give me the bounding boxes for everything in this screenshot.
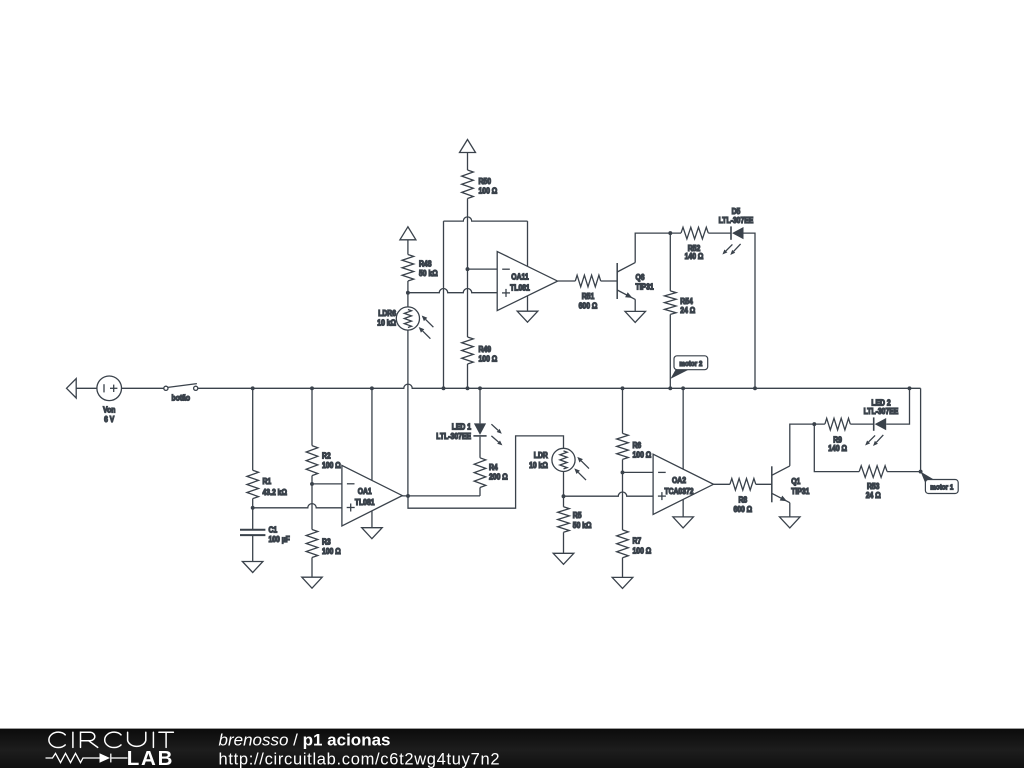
svg-text:600 Ω: 600 Ω bbox=[579, 302, 598, 311]
svg-text:43.2 kΩ: 43.2 kΩ bbox=[263, 488, 288, 497]
svg-text:LTL-307EE: LTL-307EE bbox=[719, 216, 754, 225]
svg-text:R6: R6 bbox=[633, 441, 642, 450]
wire: rail left leg down to bus bbox=[443, 221, 445, 388]
node: OA1 inverting junction bbox=[310, 482, 314, 486]
svg-text:TCA0372: TCA0372 bbox=[664, 487, 693, 496]
svg-text:R54: R54 bbox=[680, 297, 693, 306]
svg-text:LTL-307EE: LTL-307EE bbox=[864, 407, 899, 416]
svg-text:TIP31: TIP31 bbox=[636, 282, 655, 291]
resistor R8 600Ω bbox=[730, 479, 756, 491]
ground below R7 bbox=[612, 577, 633, 588]
wire: feedback loop from output down/right/up to LDR bbox=[408, 436, 564, 508]
svg-text:R1: R1 bbox=[263, 477, 272, 486]
wire: R48 to junction bbox=[407, 281, 409, 293]
wire: OA2 output to R8 bbox=[713, 483, 730, 485]
ground below OA11 bbox=[517, 311, 538, 322]
svg-text:http://circuitlab.com/c6t2wg4t: http://circuitlab.com/c6t2wg4tuy7n2 bbox=[219, 750, 500, 768]
wire: OA1 output row to R4 bbox=[402, 495, 480, 497]
svg-text:Q6: Q6 bbox=[636, 273, 645, 282]
svg-text:C1: C1 bbox=[269, 525, 278, 534]
resistor R49 100Ω bbox=[462, 337, 474, 364]
wire: OA11 V+ pin bbox=[527, 221, 529, 266]
wire: bus right leg down to motor1 node bbox=[920, 388, 922, 471]
svg-text:TIP31: TIP31 bbox=[791, 487, 810, 496]
svg-text:TL081: TL081 bbox=[355, 498, 375, 507]
wire: junction down to R5 bbox=[563, 496, 565, 507]
wire: R6 to minus junction bbox=[622, 459, 624, 472]
wire: OA2 V- pin to ground bbox=[682, 500, 684, 517]
node: OA2 inverting junction bbox=[621, 470, 625, 474]
node terminal flag (left, at source negative) bbox=[67, 379, 77, 398]
switch botão (SPST, open) bbox=[168, 384, 197, 388]
ground below OA2 bbox=[673, 517, 694, 528]
node: R9/R53 junction bbox=[812, 422, 816, 426]
ground below Q1 bbox=[780, 517, 801, 528]
svg-text:OA1: OA1 bbox=[358, 487, 372, 496]
wire: Q6 emitter to ground bbox=[634, 299, 636, 311]
resistor R53 24Ω bbox=[859, 466, 887, 478]
wire: R2 to minus junction bbox=[311, 476, 313, 484]
wire: bus down to R6 bbox=[622, 388, 624, 433]
wire: supply rail to OA11 V+ (hops over R50 line) bbox=[444, 217, 528, 221]
wire: OA1 V- pin to ground bbox=[371, 511, 373, 528]
svg-text:R5: R5 bbox=[573, 511, 582, 520]
svg-text:TL081: TL081 bbox=[510, 284, 530, 293]
resistor R3 100Ω bbox=[306, 530, 318, 558]
wire: bus down to LED1 bbox=[479, 388, 481, 423]
svg-text:LED 1: LED 1 bbox=[452, 423, 472, 432]
wire: LDR bottom to junction bbox=[563, 472, 565, 497]
wire: junction down to R49 bbox=[467, 269, 469, 337]
wire: flag to source bbox=[76, 387, 97, 389]
photoresistor LDR 10kΩ bbox=[552, 448, 575, 471]
wire: R51 to Q6 base bbox=[601, 280, 618, 282]
ground below R5 bbox=[553, 553, 574, 564]
wire: junction to OA1 + input (hops R2 line) bbox=[253, 504, 342, 508]
wire: Q1 emitter to ground bbox=[789, 503, 791, 517]
wire: R53 to motor1 node bbox=[887, 471, 921, 473]
wire: bus down to R2 bbox=[311, 388, 313, 445]
svg-text:motor 1: motor 1 bbox=[930, 483, 954, 492]
svg-text:LDR: LDR bbox=[534, 451, 548, 460]
svg-text:24 Ω: 24 Ω bbox=[680, 306, 695, 315]
resistor R50 100Ω bbox=[462, 170, 474, 199]
wire: LDR6 down across bus (hop) to OA1 output node bbox=[407, 330, 409, 496]
resistor R6 100Ω bbox=[617, 433, 629, 459]
wire: junction down to R54 bbox=[669, 233, 671, 291]
op-amp OA2 TCA0372 bbox=[653, 454, 713, 514]
svg-text:R50: R50 bbox=[479, 177, 492, 186]
wire: OA1 V+ pin from bus bbox=[371, 388, 373, 480]
wire: R49 to bus bbox=[467, 364, 469, 388]
wire: source to switch bbox=[122, 387, 164, 389]
ground below C1 bbox=[242, 562, 263, 573]
resistor R48 50kΩ bbox=[402, 255, 414, 282]
wire: R52 to D5 bbox=[708, 232, 730, 234]
LED LED2 LTL-307EE bbox=[869, 435, 876, 442]
svg-text:6 V: 6 V bbox=[104, 415, 115, 424]
wire: R9 to LED2 bbox=[850, 423, 873, 425]
resistor R51 600Ω bbox=[575, 275, 600, 287]
power flag above R48 bbox=[400, 227, 416, 240]
node: R52/R54 junction bbox=[668, 231, 672, 235]
svg-text:100 Ω: 100 Ω bbox=[322, 461, 341, 470]
svg-text:140 Ω: 140 Ω bbox=[828, 444, 847, 453]
voltage source Von 6 V bbox=[97, 376, 122, 401]
svg-text:600 Ω: 600 Ω bbox=[733, 505, 752, 514]
svg-text:brenosso / p1 acionas: brenosso / p1 acionas bbox=[219, 731, 391, 750]
wire: bus down to R1 bbox=[252, 388, 254, 470]
svg-text:Von: Von bbox=[103, 405, 115, 414]
wire: to OA11 inverting input bbox=[468, 268, 498, 270]
node: bus junctions bbox=[251, 386, 255, 390]
svg-text:OA2: OA2 bbox=[672, 476, 686, 485]
svg-text:R2: R2 bbox=[322, 451, 331, 460]
wire: OA11 output to R51 bbox=[558, 280, 575, 282]
ground below OA1 bbox=[362, 528, 383, 539]
svg-text:100 Ω: 100 Ω bbox=[633, 547, 652, 556]
node: R48/LDR6 junction bbox=[406, 291, 410, 295]
node: R1/C1/+input junction bbox=[251, 506, 255, 510]
svg-text:10 kΩ: 10 kΩ bbox=[529, 461, 548, 470]
LED D5 LTL-307EE bbox=[726, 244, 733, 251]
net flag motor 1 bbox=[921, 472, 935, 486]
node: OA1 output junction bbox=[406, 494, 410, 498]
transistor Q6 TIP31 bbox=[616, 263, 618, 299]
wire: to OA1 inverting input bbox=[312, 483, 342, 485]
power flag above R50 bbox=[460, 140, 476, 153]
wire: C1 to ground bbox=[252, 536, 254, 562]
wire: Q6 collector up to D5 row bbox=[635, 233, 681, 263]
resistor R1 43.2kΩ bbox=[247, 470, 259, 498]
svg-text:R49: R49 bbox=[479, 345, 492, 354]
wire: R5 to ground bbox=[563, 532, 565, 553]
resistor R4 200Ω bbox=[474, 458, 486, 488]
svg-text:50 kΩ: 50 kΩ bbox=[573, 521, 592, 530]
wire: R7 to ground bbox=[622, 558, 624, 578]
svg-text:OA11: OA11 bbox=[511, 273, 529, 282]
svg-text:LDR6: LDR6 bbox=[378, 309, 396, 318]
net flag motor 2 bbox=[670, 369, 688, 379]
wire: OA11 V- pin to ground bbox=[527, 296, 529, 312]
svg-text:100 Ω: 100 Ω bbox=[479, 187, 498, 196]
ground below Q6 bbox=[625, 311, 646, 322]
resistor R7 100Ω bbox=[617, 530, 629, 558]
svg-text:R51: R51 bbox=[582, 292, 595, 301]
svg-text:100 Ω: 100 Ω bbox=[633, 451, 652, 460]
svg-text:Q1: Q1 bbox=[791, 477, 800, 486]
resistor R54 24Ω bbox=[665, 291, 677, 315]
svg-text:10 kΩ: 10 kΩ bbox=[377, 319, 396, 328]
resistor R5 50kΩ bbox=[558, 507, 570, 533]
svg-text:24 Ω: 24 Ω bbox=[866, 491, 881, 500]
wire: OA2 V+ pin from bus bbox=[682, 388, 684, 469]
svg-text:botão: botão bbox=[172, 393, 191, 402]
transistor Q1 TIP31 bbox=[771, 466, 773, 502]
resistor R2 100Ω bbox=[306, 446, 318, 476]
svg-text:R7: R7 bbox=[633, 537, 642, 546]
logo CIRCUIT letters bbox=[49, 732, 65, 747]
wire: Q1 collector up to R9 row bbox=[790, 424, 825, 466]
svg-text:100 µF: 100 µF bbox=[269, 535, 290, 544]
op-amp OA1 TL081 bbox=[342, 465, 402, 526]
svg-text:R4: R4 bbox=[489, 463, 498, 472]
wire: R8 to Q1 base bbox=[756, 483, 772, 485]
photoresistor LDR6 10kΩ bbox=[407, 293, 409, 307]
wire: R3 to ground bbox=[311, 558, 313, 578]
wire: junction to OA11 + input (hops two verticals) bbox=[408, 289, 497, 293]
wire: junction down to R53 row bbox=[814, 424, 859, 472]
logo diode triangle bbox=[100, 753, 111, 763]
wire: junction to OA2 + input (hops R6 line) bbox=[564, 492, 654, 496]
wire: D5 to bus bbox=[744, 233, 756, 388]
LED LED1 LTL-307EE bbox=[474, 423, 486, 435]
wire: to OA2 inverting input bbox=[623, 471, 654, 473]
node: motor1 junction bbox=[919, 470, 923, 474]
node: OA11 inverting input junction bbox=[466, 267, 470, 271]
wire: junction down to R7 bbox=[622, 472, 624, 530]
svg-text:R8: R8 bbox=[738, 495, 747, 504]
wire: LED2 up to bus bbox=[886, 388, 909, 424]
node: LDR/R5 junction bbox=[562, 494, 566, 498]
svg-text:50 kΩ: 50 kΩ bbox=[419, 269, 438, 278]
svg-text:100 Ω: 100 Ω bbox=[322, 547, 341, 556]
op-amp OA11 TL081 bbox=[497, 252, 557, 311]
resistor R9 140Ω bbox=[825, 418, 850, 430]
svg-text:motor 2: motor 2 bbox=[679, 359, 702, 368]
svg-text:R53: R53 bbox=[867, 482, 880, 491]
wire: LED1 to R4 bbox=[479, 437, 481, 458]
svg-text:100 Ω: 100 Ω bbox=[479, 355, 498, 364]
wire: R50 down through supply rail to minus node bbox=[467, 199, 469, 270]
wire: R54 to bus (motor 2 tap) bbox=[669, 314, 671, 388]
svg-text:R48: R48 bbox=[419, 260, 432, 269]
footer bar bbox=[0, 729, 1024, 768]
capacitor C1 100µF bbox=[240, 529, 265, 531]
ground below R3 bbox=[302, 577, 322, 588]
svg-text:R3: R3 bbox=[322, 538, 331, 547]
wire: junction down to R3 bbox=[311, 484, 313, 530]
resistor R52 140Ω bbox=[681, 227, 708, 239]
svg-text:LAB: LAB bbox=[127, 747, 175, 768]
wire: R1 to C1 junction bbox=[252, 499, 254, 530]
wire: main 6V bus from switch to right edge bbox=[198, 384, 921, 388]
svg-text:140 Ω: 140 Ω bbox=[685, 252, 704, 261]
wire: R4 to output row bbox=[479, 488, 481, 496]
svg-text:LTL-307EE: LTL-307EE bbox=[436, 432, 471, 441]
logo resistor-diode squiggle bbox=[46, 753, 100, 762]
svg-text:D5: D5 bbox=[732, 207, 741, 216]
svg-text:200 Ω: 200 Ω bbox=[489, 473, 508, 482]
